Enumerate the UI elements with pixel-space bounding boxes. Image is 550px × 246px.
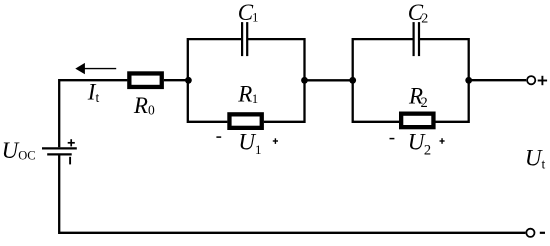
wire R0 to node A: [164, 79, 189, 81]
node B junction dot: [301, 77, 308, 84]
capacitor C1: [242, 22, 247, 56]
resistor R1: [229, 114, 261, 128]
wire node B to node C: [305, 79, 353, 81]
node C junction dot: [349, 77, 356, 84]
wire RC2 left branch: [353, 39, 414, 122]
resistor R2: [401, 114, 433, 128]
minus terminal: [526, 229, 534, 237]
label minus of U2: [390, 138, 395, 140]
wire node D to plus terminal: [469, 79, 527, 81]
node A junction dot: [185, 77, 192, 84]
wire RC1 right branch: [247, 39, 304, 122]
label plus of U1: [273, 138, 278, 144]
capacitor C2: [414, 22, 419, 56]
wire RC1 left branch: [188, 39, 242, 122]
wire RC2 right branch: [419, 39, 469, 122]
plus terminal: [527, 76, 535, 84]
wire battery bottom to bottom rail to minus terminal: [59, 155, 525, 232]
resistor R0: [129, 73, 161, 87]
label minus of U1: [216, 136, 221, 138]
current arrow I_t: [75, 63, 116, 74]
label plus of terminal: [538, 76, 547, 85]
voltage source U_OC (battery): [42, 139, 77, 164]
label minus of terminal: [540, 232, 545, 234]
wire left top rail from battery to R0: [59, 80, 127, 147]
node D junction dot: [465, 77, 472, 84]
label plus of U2: [440, 138, 445, 144]
